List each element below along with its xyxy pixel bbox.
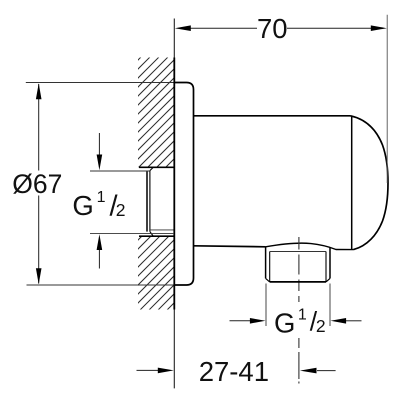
body top edge [194,115,351,117]
wall hatch (section lines) [0,50,400,320]
svg-text:G: G [274,307,295,338]
outlet centerline (dashed) [298,237,300,384]
outlet connector outer right [329,248,331,279]
dimension Ø67: top arrowhead [36,83,42,99]
dome seam line [351,117,353,250]
left G1/2 dimension: bottom arrow [98,250,100,269]
svg-text:2: 2 [316,316,326,336]
svg-text:70: 70 [257,13,288,44]
dome silhouette [351,116,389,250]
inlet connector G1/2 top silhouette [139,166,174,168]
inlet connector end face lines [146,171,148,232]
outlet connector shoulder line [270,251,326,253]
bottom G1/2 label [274,306,326,338]
dimension 27-41: left arrow [137,369,159,371]
inlet connector thread root line [150,229,174,231]
outlet connector inner left [269,252,271,282]
bottom G1/2 label background [271,303,326,336]
dimension Ø67: line segments [38,84,40,284]
bottom G1/2 dimension: extension lines [265,284,267,327]
left G1/2 dimension: top arrow [98,133,100,156]
body bottom edge [194,246,266,247]
inlet connector chamfers [150,167,153,236]
bottom G1/2 dimension: right arrow [346,320,362,322]
svg-text:27-41: 27-41 [199,356,269,387]
outlet connector G1/2 outer left [265,247,267,279]
dimension 70: right arrowhead [371,25,387,31]
svg-text:Ø67: Ø67 [12,169,62,199]
dimension 27-41: right arrow [317,370,336,372]
wall edge / mounting face line [173,19,175,389]
outlet connector chamfers [266,278,330,282]
svg-text:1: 1 [298,306,307,323]
dimension Ø67: bottom arrowhead [36,268,42,284]
svg-text:2: 2 [116,200,126,220]
inlet connector bottom silhouette [139,235,174,237]
outlet connector inner right [325,252,327,282]
extension line top (Ø67 / flange top) [26,82,189,84]
flange (wall escutcheon) [174,83,194,286]
dimension 70: right extension line [386,15,388,183]
bottom G1/2 dimension: left arrow [230,320,251,322]
body underside arc over outlet [266,243,354,249]
outlet connector bottom face [270,281,326,283]
svg-text:1: 1 [97,189,106,206]
dimension 70: line segments [190,27,372,29]
svg-text:G: G [72,190,93,221]
dimension 70: left arrowhead [175,25,191,31]
left G1/2 label [72,189,125,223]
left G1/2 dimension: extension lines [90,170,150,172]
extension line bottom (Ø67 / flange bottom) [27,284,181,286]
